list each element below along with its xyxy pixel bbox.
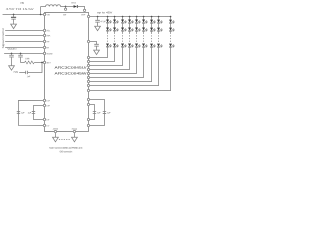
wire LED column 6 link1 bbox=[143, 23, 145, 28]
IC U1 ARC3C0845 LED-driver body bbox=[44, 12, 88, 131]
wire C1 to ground bbox=[13, 19, 15, 23]
diode D1 schottky bbox=[71, 2, 77, 8]
wire LED column 6 link2 bbox=[143, 31, 145, 33]
wire LED column 7 return bbox=[90, 47, 152, 82]
svg-text:100k: 100k bbox=[25, 58, 29, 60]
svg-text:SW: SW bbox=[63, 14, 66, 16]
wire LED column 9 return bbox=[90, 47, 171, 91]
wire C10 loop bbox=[90, 105, 95, 120]
LED D7C bbox=[150, 44, 156, 48]
pin C3P bbox=[87, 98, 89, 100]
wire LED column 4 link1 bbox=[129, 23, 131, 28]
wire C4 branch bbox=[28, 62, 42, 72]
wire LED column 1 top bbox=[107, 17, 109, 20]
wire C7 loop bbox=[18, 100, 43, 125]
LED D6A bbox=[142, 20, 148, 24]
capacitor C1 input bbox=[11, 17, 16, 19]
wire LED column 2 top bbox=[114, 17, 116, 20]
LED D1C bbox=[106, 44, 112, 48]
LED D5C bbox=[135, 44, 141, 48]
capacitor C8 flying bbox=[28, 112, 36, 115]
wire LED column 3 return bbox=[90, 47, 123, 66]
pin LED8 bbox=[87, 84, 89, 86]
LED D8B bbox=[157, 28, 163, 32]
wire LED column 2 link2 bbox=[114, 31, 116, 33]
capacitor C2 bbox=[9, 55, 14, 57]
wire LED column 1 link1 bbox=[107, 23, 109, 28]
wire boost tap up bbox=[40, 6, 42, 14]
svg-text:Signal Control: Signal Control bbox=[2, 28, 5, 49]
pin C3N bbox=[87, 124, 89, 126]
junction rail column 8 bbox=[158, 16, 160, 18]
capacitor C9 flying bbox=[103, 112, 111, 115]
wire LED column 5 link2 bbox=[136, 31, 138, 33]
LED D1A bbox=[106, 20, 112, 24]
pin C1P bbox=[43, 99, 50, 102]
junction rail column 2 bbox=[114, 16, 116, 18]
wire LED column 7 link2 bbox=[151, 31, 153, 33]
wire LED column 9 link2 bbox=[170, 31, 172, 33]
wire LED column 2 ellipsis bbox=[114, 33, 116, 43]
svg-text:PWM: PWM bbox=[14, 72, 19, 74]
wire C2 to ground bbox=[11, 57, 13, 64]
wire output rail bbox=[90, 16, 171, 18]
svg-text:ARC3C0845W: ARC3C0845W bbox=[55, 71, 88, 75]
pin LED1 bbox=[87, 56, 89, 58]
note line 2 bbox=[60, 150, 73, 153]
LED D7B bbox=[150, 28, 156, 32]
junction boost tap bbox=[40, 14, 42, 16]
pin VREG bbox=[87, 40, 89, 42]
wire C2 stub bbox=[11, 53, 13, 55]
net label Signal Control bbox=[2, 28, 5, 49]
wire D1 to OVP bbox=[77, 6, 84, 9]
wire LED column 7 top bbox=[151, 17, 153, 20]
LED D2A bbox=[113, 20, 119, 24]
wire C1 stub bbox=[13, 14, 15, 16]
wire LED column 2 return bbox=[90, 47, 115, 62]
LED D3C bbox=[121, 44, 127, 48]
wire signal SDA bbox=[5, 34, 43, 36]
capacitor C4 bbox=[26, 71, 31, 78]
pin C1N bbox=[43, 124, 49, 127]
wire LED column 3 link2 bbox=[122, 31, 124, 33]
junction rail column 6 bbox=[143, 16, 145, 18]
svg-text:up to 45V: up to 45V bbox=[97, 11, 113, 14]
pin AGND bbox=[53, 128, 59, 133]
wire R1 to ISET pin bbox=[34, 61, 43, 63]
wire LED column 5 link1 bbox=[136, 23, 138, 28]
wire C8 loop bbox=[33, 105, 43, 119]
svg-text:SCL: SCL bbox=[46, 30, 50, 32]
LED D8C bbox=[157, 44, 163, 48]
wire AGND down bbox=[54, 133, 56, 137]
svg-text:1µF: 1µF bbox=[97, 112, 101, 114]
junction rail column 3 bbox=[122, 16, 124, 18]
wire LED column 8 return bbox=[90, 47, 159, 86]
resistor R1 bbox=[25, 58, 35, 64]
pin ISET bbox=[43, 61, 51, 64]
wire LED column 3 ellipsis bbox=[122, 33, 124, 43]
LED D3A bbox=[121, 20, 127, 24]
svg-text:GND connection: GND connection bbox=[60, 150, 73, 153]
svg-text:Note: Connect AGND and PGND at: Note: Connect AGND and PGND at IC bbox=[49, 147, 82, 150]
wire LED column 4 ellipsis bbox=[129, 33, 131, 43]
pin SCL bbox=[43, 29, 50, 32]
capacitor C7 flying bbox=[17, 112, 25, 115]
wire LED column 4 return bbox=[90, 47, 130, 70]
junction rail column 5 bbox=[136, 16, 138, 18]
svg-text:1nF: 1nF bbox=[27, 76, 31, 78]
LED D2C bbox=[113, 44, 119, 48]
pin SDA bbox=[43, 34, 51, 37]
junction rail column 9 bbox=[170, 16, 172, 18]
svg-text:C2-: C2- bbox=[46, 119, 49, 121]
pin C2P bbox=[43, 104, 50, 107]
wire LED column 1 link2 bbox=[107, 31, 109, 33]
wire C3 to R1 bbox=[21, 57, 25, 62]
wire LED column 5 top bbox=[136, 17, 138, 20]
wire LED column 2 link1 bbox=[114, 23, 116, 28]
pin LED7 bbox=[87, 80, 89, 82]
junction VIN-C1 bbox=[13, 14, 15, 16]
LED D8A bbox=[157, 20, 163, 24]
net VDDIO label bbox=[7, 49, 16, 51]
pin VDDIO bbox=[43, 52, 53, 55]
pin LED6 bbox=[87, 76, 89, 78]
ground G6 PGND bbox=[72, 136, 78, 142]
wire LED column 1 ellipsis bbox=[107, 33, 109, 43]
capacitor C5 output bbox=[95, 20, 106, 23]
LED D9A bbox=[169, 20, 175, 24]
LED D3B bbox=[121, 28, 127, 32]
svg-text:C1-: C1- bbox=[46, 125, 49, 127]
LED D9B bbox=[169, 28, 175, 32]
svg-text:PGND: PGND bbox=[72, 129, 78, 131]
svg-text:1µF: 1µF bbox=[21, 112, 25, 114]
LED D5B bbox=[135, 28, 141, 32]
wire C6 to ground bbox=[96, 46, 98, 49]
pin PGND bbox=[72, 129, 78, 133]
pin LED5 bbox=[87, 72, 89, 74]
LED D7A bbox=[150, 20, 156, 24]
capacitor C10 flying bbox=[93, 112, 101, 115]
inductor L1 bbox=[41, 5, 66, 7]
junction rail column 1 bbox=[107, 16, 109, 18]
wire LED column 9 top bbox=[170, 17, 172, 20]
wire C5 stub bbox=[97, 17, 99, 20]
wire LED column 9 ellipsis bbox=[170, 33, 172, 43]
LED D2B bbox=[113, 28, 119, 32]
pin C4P bbox=[87, 103, 89, 105]
junction rail column 7 bbox=[151, 16, 153, 18]
wire signal SCL bbox=[5, 29, 43, 31]
pin LED2 bbox=[87, 60, 89, 62]
svg-text:1µF: 1µF bbox=[107, 112, 111, 114]
svg-text:VDDIO: VDDIO bbox=[7, 49, 16, 51]
ground G2 output bbox=[95, 25, 101, 31]
wire C5 to ground bbox=[97, 22, 99, 25]
wire LED column 1 return bbox=[90, 47, 108, 58]
ground G3 vreg bbox=[94, 49, 100, 55]
svg-text:AGND: AGND bbox=[53, 128, 59, 131]
wire LED column 7 link1 bbox=[151, 23, 153, 28]
LED D6B bbox=[142, 28, 148, 32]
wire C4 to PWM bbox=[19, 71, 25, 73]
wire LED column 4 top bbox=[129, 17, 131, 20]
rail voltage label bbox=[97, 11, 113, 14]
wire signal INT bbox=[5, 40, 43, 42]
wire LED column 5 return bbox=[90, 47, 137, 74]
svg-text:SS14: SS14 bbox=[71, 2, 76, 4]
wire LED column 6 ellipsis bbox=[143, 33, 145, 43]
wire LED column 6 top bbox=[143, 17, 145, 20]
LED D4A bbox=[128, 20, 134, 24]
wire SW stub bbox=[65, 6, 67, 8]
svg-text:4.7µF: 4.7µF bbox=[101, 21, 107, 23]
wire LED column 8 link1 bbox=[158, 23, 160, 28]
note line 1 bbox=[49, 147, 82, 150]
capacitor C6 vreg bbox=[94, 44, 99, 46]
wire VIN rail bbox=[3, 13, 44, 15]
svg-text:ARC3C0845U/: ARC3C0845U/ bbox=[55, 66, 87, 70]
pin EN bbox=[43, 46, 49, 49]
ground G5 AGND bbox=[53, 136, 59, 142]
junction rail-C5 bbox=[97, 16, 99, 18]
pin VOUT bbox=[87, 15, 89, 17]
wire LED column 5 ellipsis bbox=[136, 33, 138, 43]
wire C3 stub bbox=[20, 53, 22, 55]
junction SW node bbox=[65, 6, 67, 8]
wire LED column 4 link2 bbox=[129, 31, 131, 33]
pin INT bbox=[43, 40, 50, 43]
capacitor C3 bbox=[18, 55, 23, 57]
wire VDDIO bbox=[4, 52, 43, 54]
wire signal EN bbox=[5, 46, 43, 48]
wire C9 loop bbox=[90, 100, 105, 126]
junction R1-C4 bbox=[41, 62, 43, 64]
wire AGND-PGND tie bbox=[59, 138, 71, 140]
junction VDDIO-C3 bbox=[20, 53, 22, 55]
svg-text:4.5V TO 15.5V: 4.5V TO 15.5V bbox=[6, 8, 35, 11]
wire LED column 3 link1 bbox=[122, 23, 124, 28]
svg-text:VDDIO: VDDIO bbox=[46, 53, 53, 55]
wire LED column 8 link2 bbox=[158, 31, 160, 33]
wire VREG to C6 bbox=[90, 42, 97, 45]
LED D1B bbox=[106, 28, 112, 32]
pin C4N bbox=[87, 118, 89, 120]
LED D5A bbox=[135, 20, 141, 24]
pin LED4 bbox=[87, 68, 89, 70]
wire LED column 8 top bbox=[158, 17, 160, 20]
pin VIN bbox=[43, 13, 50, 16]
LED D4B bbox=[128, 28, 134, 32]
wire LED column 3 top bbox=[122, 17, 124, 20]
pin C2N bbox=[43, 118, 49, 121]
net PWM label bbox=[14, 72, 19, 74]
wire LED column 8 ellipsis bbox=[158, 33, 160, 43]
junction rail column 4 bbox=[129, 16, 131, 18]
node VIN label bbox=[20, 3, 24, 5]
svg-text:VIN: VIN bbox=[20, 3, 24, 5]
wire LED column 9 link1 bbox=[170, 23, 172, 28]
svg-text:1µF: 1µF bbox=[28, 112, 32, 114]
wire LED column 6 return bbox=[90, 47, 144, 78]
wire LED column 7 ellipsis bbox=[151, 33, 153, 43]
ground G4 vddio bbox=[9, 64, 15, 70]
pin SW bbox=[63, 8, 67, 16]
junction VDDIO-C2 bbox=[11, 53, 13, 55]
pin LED9 bbox=[87, 89, 89, 91]
ground G1 input bbox=[11, 23, 17, 29]
pin LED3 bbox=[87, 64, 89, 66]
wire PGND down bbox=[73, 133, 75, 137]
pin OVP bbox=[81, 9, 86, 16]
LED D6C bbox=[142, 44, 148, 48]
LED D4C bbox=[128, 44, 134, 48]
wire SW to diode D1 bbox=[66, 5, 74, 7]
VIN range label bbox=[6, 8, 35, 11]
LED D9C bbox=[169, 44, 175, 48]
